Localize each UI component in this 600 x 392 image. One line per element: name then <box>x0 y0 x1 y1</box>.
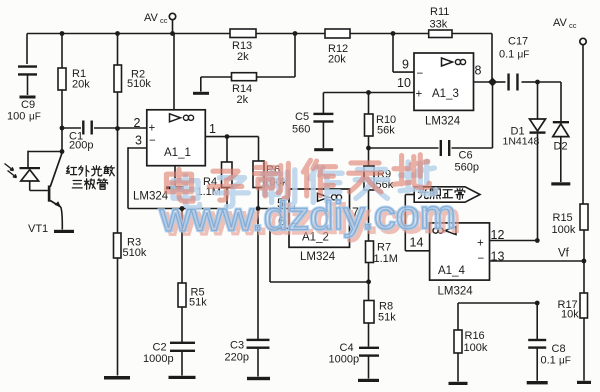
svg-text:−: − <box>417 68 424 80</box>
svg-text:33k: 33k <box>430 19 448 31</box>
node junction pin5-C3 <box>256 206 261 211</box>
resistor R11 <box>429 30 452 38</box>
resistor R13 <box>230 29 256 38</box>
node junction R5 tap <box>180 206 185 211</box>
capacitor C5 <box>322 93 324 114</box>
terminal AVcc left <box>169 13 175 19</box>
svg-text:R15: R15 <box>553 212 573 224</box>
resistor R17 <box>583 261 585 293</box>
svg-text:A1_1: A1_1 <box>164 147 191 159</box>
svg-text:LM324: LM324 <box>300 251 336 263</box>
svg-text:1000p: 1000p <box>143 353 174 365</box>
wire photodiode branch <box>28 151 62 153</box>
svg-text:220p: 220p <box>225 352 249 364</box>
svg-text:20k: 20k <box>328 54 346 66</box>
svg-text:1.1M: 1.1M <box>374 253 398 265</box>
node junction top rail R2 <box>115 31 120 36</box>
node junction top rail pin9 <box>391 31 396 36</box>
svg-text:Vf: Vf <box>558 248 570 260</box>
svg-text:1000p: 1000p <box>329 354 360 366</box>
resistor R3 <box>114 233 122 258</box>
svg-text:3: 3 <box>135 134 142 148</box>
resistor R12 <box>325 29 350 38</box>
ground A1_1 <box>174 166 176 186</box>
svg-text:56k: 56k <box>377 125 395 137</box>
svg-text:20k: 20k <box>72 79 90 91</box>
resistor R2 <box>117 34 119 66</box>
svg-text:100: 100 <box>7 111 25 123</box>
resistor R14 <box>294 34 296 78</box>
svg-text:C2: C2 <box>153 342 167 354</box>
svg-text:2: 2 <box>134 116 141 130</box>
svg-text:560: 560 <box>292 124 310 136</box>
svg-text:0.1: 0.1 <box>499 49 514 61</box>
svg-text:560p: 560p <box>455 162 479 174</box>
op-amp U2 A1_3 <box>414 53 474 110</box>
node junction C17-D1-D2 <box>535 80 540 85</box>
svg-text:51k: 51k <box>378 312 396 324</box>
svg-text:cc: cc <box>160 16 168 25</box>
node junction A1_1 out <box>225 134 230 139</box>
capacitor C4 <box>368 323 370 347</box>
wire pin10 rail <box>323 92 414 94</box>
capacitor C6 <box>369 147 439 149</box>
svg-text:9: 9 <box>402 58 409 72</box>
svg-text:51k: 51k <box>189 297 207 309</box>
svg-text:R7: R7 <box>377 242 391 254</box>
node junction pin8 <box>488 78 497 87</box>
wire pin9 <box>392 34 394 73</box>
svg-text:μF: μF <box>29 112 41 123</box>
label hongwai guangmin <box>66 166 76 175</box>
resistor R1 <box>61 34 63 69</box>
svg-text:0.1: 0.1 <box>541 355 556 367</box>
svg-text:510k: 510k <box>123 247 147 259</box>
node flag light-normal <box>414 187 480 202</box>
svg-text:LM324: LM324 <box>438 286 474 298</box>
wire A1_2 feedback <box>269 228 271 282</box>
svg-text:R11: R11 <box>430 6 449 18</box>
svg-text:100k: 100k <box>552 224 576 236</box>
capacitor C3 <box>257 209 259 340</box>
wire A1_1 supply <box>173 34 175 110</box>
svg-text:+: + <box>416 89 423 101</box>
svg-text:C9: C9 <box>21 99 35 111</box>
node junction Vf <box>582 259 587 264</box>
svg-text:AV: AV <box>144 12 159 24</box>
node junction R1-C1 <box>60 126 65 131</box>
svg-text:2k: 2k <box>237 51 249 63</box>
svg-text:−: − <box>149 135 156 147</box>
resistor R16 <box>458 302 537 304</box>
resistor R10 <box>368 93 370 115</box>
svg-text:200p: 200p <box>69 140 93 152</box>
resistor R4 <box>226 137 228 162</box>
wire A1_1 output <box>205 136 258 138</box>
svg-text:10: 10 <box>397 76 411 90</box>
svg-text:AV: AV <box>553 17 568 29</box>
wire top AVcc rail <box>27 33 230 35</box>
resistor R6 <box>258 137 260 161</box>
transistor VT1 <box>48 186 51 202</box>
svg-text:LM324: LM324 <box>425 116 461 128</box>
resistor R5 <box>181 209 183 284</box>
op-amp U3 A1_2 <box>289 189 350 247</box>
node junction R16-C8 <box>535 301 540 306</box>
svg-text:+: + <box>477 238 484 250</box>
node junction C5-R10 <box>366 90 371 95</box>
resistor R8 <box>368 282 370 301</box>
svg-text:C3: C3 <box>230 340 244 352</box>
light arrows <box>5 164 14 171</box>
op-amp A1_1 <box>147 110 206 166</box>
svg-text:8: 8 <box>475 64 482 78</box>
svg-text:www.dzdiy.com: www.dzdiy.com <box>159 193 457 240</box>
node junction pin12-D1 <box>535 238 540 243</box>
node junction R2-R3-pin2 <box>115 126 120 131</box>
svg-text:cc: cc <box>569 21 577 30</box>
wire A1_1 feedback <box>127 147 129 208</box>
capacitor C8 <box>536 303 538 339</box>
svg-text:C6: C6 <box>459 150 473 162</box>
node junction R7-R8-pin6 <box>366 279 371 284</box>
wire R11 to pin8 <box>491 34 493 83</box>
capacitor C1 <box>62 127 81 129</box>
svg-text:1: 1 <box>209 122 216 136</box>
diode D1 <box>537 82 539 119</box>
diode D2 <box>538 81 562 83</box>
svg-text:C5: C5 <box>295 111 309 123</box>
node junction top rail R1 <box>60 31 65 36</box>
node junction top rail supply <box>170 31 175 36</box>
svg-text:1N4148: 1N4148 <box>503 136 540 148</box>
watermark dzdiy <box>173 176 200 208</box>
svg-text:C17: C17 <box>508 36 528 48</box>
svg-text:μF: μF <box>518 50 530 61</box>
resistor R9 <box>364 166 374 190</box>
svg-text:D2: D2 <box>554 141 568 153</box>
svg-text:100k: 100k <box>464 342 488 354</box>
svg-text:+: + <box>149 123 156 135</box>
svg-text:VT1: VT1 <box>28 223 48 235</box>
svg-text:R16: R16 <box>465 330 485 342</box>
wire tag to pin14 <box>405 194 414 196</box>
svg-text:−: − <box>478 253 485 265</box>
svg-text:10k: 10k <box>561 309 579 321</box>
svg-text:510k: 510k <box>127 78 151 90</box>
svg-text:A1_4: A1_4 <box>438 265 465 277</box>
svg-text:A1_3: A1_3 <box>432 88 459 100</box>
svg-text:C4: C4 <box>340 342 354 354</box>
capacitor C2 <box>181 307 183 342</box>
capacitor C9 <box>26 34 28 65</box>
node junction R10-R9-C6 <box>366 146 371 151</box>
svg-text:C8: C8 <box>552 343 566 355</box>
node junction collector <box>60 149 65 154</box>
resistor R7 <box>366 241 374 263</box>
photodiode VT1 <box>20 167 41 169</box>
svg-text:μF: μF <box>559 356 571 367</box>
resistor R15 <box>580 204 588 230</box>
svg-text:2k: 2k <box>237 94 249 106</box>
capacitor C17 <box>493 81 506 83</box>
node junction top rail R14 <box>293 31 298 36</box>
op-amp U4 A1_4 <box>430 223 490 280</box>
